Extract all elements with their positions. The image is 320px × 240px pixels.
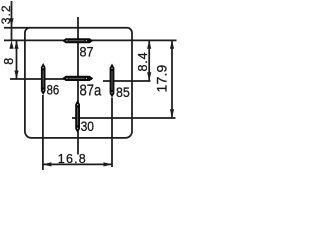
- svg-text:16.8: 16.8: [58, 152, 87, 166]
- svg-text:86: 86: [47, 81, 60, 97]
- svg-text:8.4: 8.4: [136, 52, 150, 72]
- svg-text:3.2: 3.2: [0, 4, 13, 24]
- svg-text:17.9: 17.9: [153, 64, 169, 92]
- svg-text:85: 85: [116, 84, 130, 100]
- svg-text:8: 8: [2, 58, 16, 65]
- svg-text:87: 87: [80, 44, 94, 60]
- svg-text:87a: 87a: [80, 82, 102, 99]
- svg-text:30: 30: [81, 118, 95, 134]
